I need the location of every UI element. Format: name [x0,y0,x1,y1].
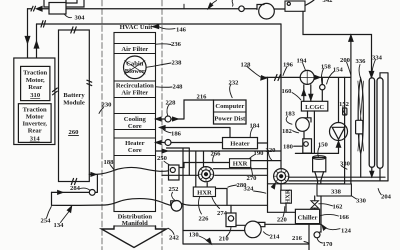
svg-text:216: 216 [197,94,208,101]
svg-text:162: 162 [333,204,344,211]
svg-text:Rear: Rear [28,84,42,91]
svg-text:Rear: Rear [28,128,42,135]
svg-text:232: 232 [229,80,240,87]
svg-text:Heater: Heater [230,141,249,148]
svg-text:Core: Core [128,123,142,130]
svg-text:226: 226 [199,215,210,222]
svg-text:HXR: HXR [197,190,212,197]
svg-text:152: 152 [339,101,350,108]
svg-text:166: 166 [339,214,350,221]
svg-text:220: 220 [277,217,288,224]
svg-text:Cooling: Cooling [124,116,147,123]
svg-text:130: 130 [189,232,200,239]
svg-text:160: 160 [282,88,293,95]
svg-text:128: 128 [241,62,252,69]
svg-text:338: 338 [331,189,342,196]
svg-text:266: 266 [211,151,222,158]
svg-text:320: 320 [266,147,277,154]
svg-text:330: 330 [340,161,351,168]
svg-text:196: 196 [283,62,294,69]
svg-text:210: 210 [219,236,230,243]
svg-text:334: 334 [372,55,383,62]
svg-text:Traction: Traction [23,107,47,114]
svg-text:Cabin: Cabin [126,60,144,67]
svg-text:Inverter,: Inverter, [22,121,47,128]
svg-text:324: 324 [244,186,255,193]
svg-text:Core: Core [128,147,142,154]
svg-text:216: 216 [292,235,303,242]
svg-text:336: 336 [356,58,367,65]
svg-text:124: 124 [341,228,352,235]
svg-text:254: 254 [41,218,52,225]
svg-text:146: 146 [176,26,187,33]
svg-text:Traction: Traction [23,70,47,77]
svg-text:190: 190 [254,150,265,157]
svg-text:250: 250 [157,155,168,162]
svg-text:170: 170 [323,241,334,248]
svg-text:HVAC Unit: HVAC Unit [120,24,153,31]
svg-text:HXR: HXR [284,189,291,204]
svg-text:Manifold: Manifold [122,220,148,227]
svg-text:248: 248 [173,84,184,91]
svg-text:342: 342 [323,0,334,4]
svg-text:284: 284 [70,185,81,192]
svg-text:236: 236 [171,41,182,48]
svg-text:314: 314 [30,136,41,143]
svg-text:330: 330 [356,198,367,205]
svg-text:154: 154 [333,67,344,74]
svg-text:200: 200 [340,57,351,64]
svg-text:HXR: HXR [233,161,248,168]
svg-text:252: 252 [169,186,180,193]
svg-text:270: 270 [247,175,258,182]
svg-text:274: 274 [217,210,228,217]
svg-text:228: 228 [166,100,177,107]
svg-text:Air Filter: Air Filter [121,90,148,97]
svg-text:Air Filter: Air Filter [121,46,148,53]
svg-text:260: 260 [69,129,80,136]
svg-text:Motor,: Motor, [26,77,45,84]
svg-text:188: 188 [104,159,115,166]
svg-text:LCGC: LCGC [305,104,324,111]
svg-text:Battery: Battery [63,92,85,99]
svg-text:238: 238 [172,60,183,67]
svg-text:158: 158 [321,64,332,71]
svg-text:204: 204 [381,194,392,201]
svg-text:230: 230 [102,102,113,109]
svg-text:182: 182 [282,128,293,135]
svg-text:242: 242 [169,235,180,242]
svg-text:194: 194 [297,58,308,65]
svg-text:Heater: Heater [125,140,144,147]
svg-text:Computer: Computer [215,103,244,110]
svg-text:184: 184 [250,123,261,130]
svg-text:Motor: Motor [26,114,44,121]
svg-text:Power Dist: Power Dist [214,116,246,123]
svg-text:310: 310 [30,92,41,99]
svg-text:Recirculation: Recirculation [116,83,154,90]
svg-text:186: 186 [171,131,182,138]
svg-text:304: 304 [75,15,86,22]
svg-text:150: 150 [318,142,329,149]
svg-text:134: 134 [54,222,65,229]
svg-text:183: 183 [285,110,296,117]
svg-text:214: 214 [270,234,281,241]
svg-text:Module: Module [63,100,85,107]
svg-text:Blower: Blower [125,68,145,75]
svg-text:Chiller: Chiller [298,215,318,222]
svg-text:180: 180 [283,144,294,151]
